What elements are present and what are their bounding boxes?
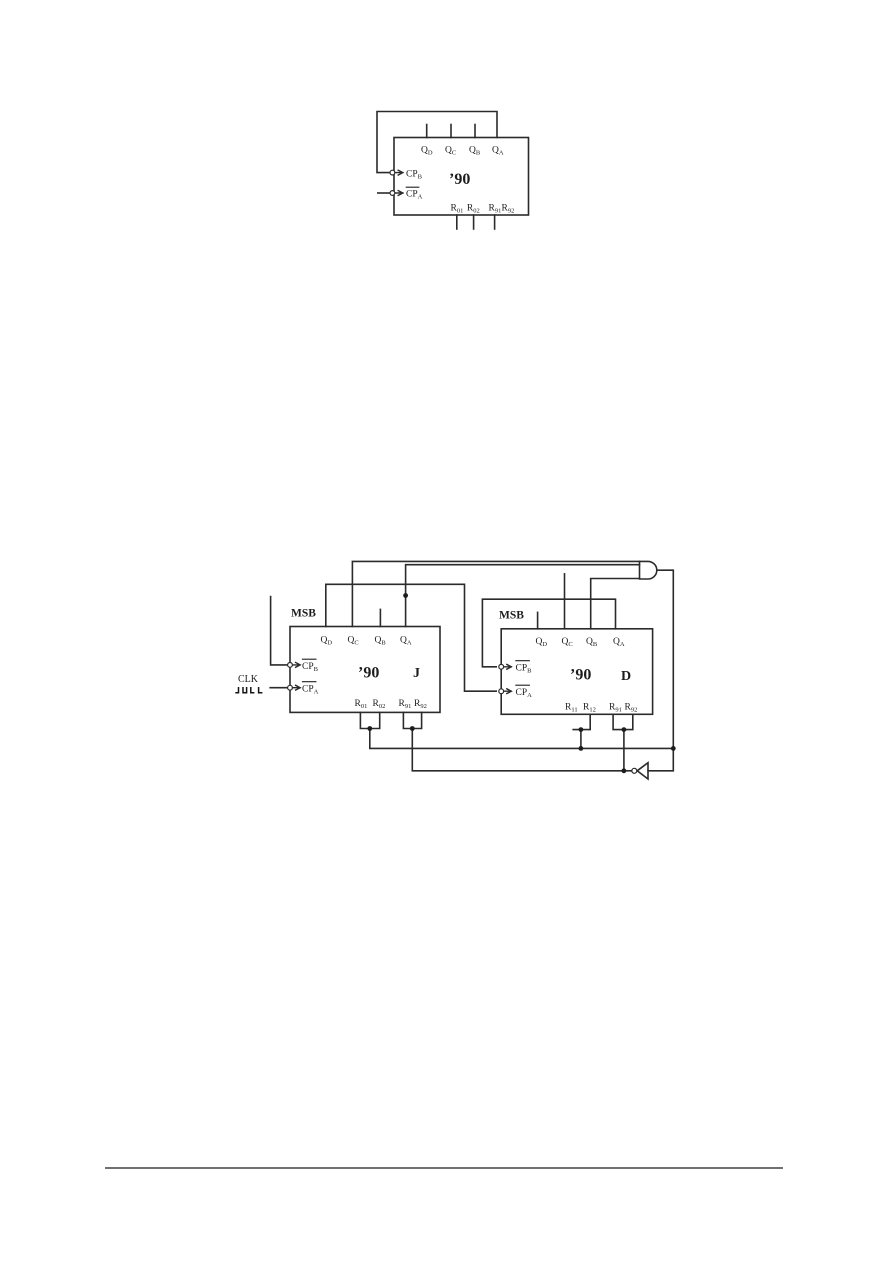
svg-text:R91: R91 [399,699,412,710]
pin R02 stub U1 [473,215,475,229]
IC U1 '90 counter box (top diagram) [394,138,529,216]
svg-text:J: J [413,666,420,681]
pin QD stub U3 [537,612,539,628]
clock arrowhead CPA U1 [395,191,403,196]
svg-text:QB: QB [469,146,481,157]
clock input bubble CPA U3 [499,689,504,694]
svg-text:QB: QB [375,636,387,647]
clock input bubble CPA U1 [390,191,395,196]
svg-text:’90: ’90 [358,665,379,682]
svg-text:’90: ’90 [449,171,470,188]
svg-text:R91: R91 [489,204,502,215]
svg-text:CPA: CPA [406,190,423,201]
wire gate output down to reset bus [648,570,673,771]
wire4 U3.QA to U3.CPB [482,599,615,667]
R91R92 tie U3 [613,714,633,729]
footer rule [105,1167,783,1169]
svg-text:CPB: CPB [516,664,533,675]
clock input bubble CPB U3 [499,664,504,669]
svg-text:QA: QA [492,146,504,157]
junction dot wire A / gate line [671,746,676,751]
svg-text:R12: R12 [583,703,596,714]
wire feedback QA to CPB (top diagram) [377,112,497,173]
wire CLK to CPA U2 [270,687,288,689]
svg-text:R11: R11 [565,703,578,714]
wire CPA input U1 [378,192,390,194]
svg-text:R02: R02 [467,204,480,215]
junction dot R0 tie U2 [367,726,372,731]
svg-text:CLK: CLK [238,674,259,685]
svg-text:R92: R92 [502,204,515,215]
junction dot on QA vertical (left chip) [403,593,408,598]
wire2 U2.QA to gate input [406,565,640,627]
junction dot R9 tie U3 [622,727,627,732]
pin QD stub U1 [426,125,428,138]
clock waveform glyph [235,687,262,693]
pin R01 stub U1 [456,215,458,229]
wire U3 R1 tie down to wire A [580,730,582,749]
svg-text:’90: ’90 [570,667,591,684]
wire B reset9 bus from U2 [412,729,631,771]
svg-text:QD: QD [536,637,548,648]
pin QB stub U1 [474,125,476,138]
svg-text:QD: QD [421,146,433,157]
wire1 U2.QC to gate input [352,561,639,626]
wire CPB input dangling vertical (left chip) [271,597,288,665]
svg-text:R02: R02 [373,699,386,710]
clock arrowhead CPA U3 [504,689,511,694]
svg-text:R91: R91 [609,703,622,714]
clock input bubble CPA U2 [288,685,293,690]
pin QC stub U1 [450,125,452,138]
svg-text:D: D [621,669,631,684]
inverter U4 bubble [632,768,637,773]
wire3 U2.QD to U3.CPA [326,584,496,691]
clock arrowhead CPA U2 [293,685,300,690]
wire A reset0 bus from U2 [370,729,674,749]
wire U3 R9 tie down to wire B [623,730,625,771]
svg-text:R01: R01 [451,204,464,215]
svg-text:CPB: CPB [302,662,319,673]
svg-text:QC: QC [562,637,573,648]
junction dot wire B / U3 R9 [622,768,627,773]
inverter U4 triangle [637,763,648,779]
svg-text:CPA: CPA [516,688,533,699]
clock input bubble CPB U2 [288,663,293,668]
IC U3 '90 D box (right chip) [501,629,652,715]
pin QB stub U2 [379,609,381,626]
pin R91 stub U1 [494,215,496,229]
svg-text:QC: QC [445,146,456,157]
clock input bubble CPB U1 [390,170,395,175]
svg-text:R01: R01 [355,699,368,710]
junction dot R1 tie U3 [579,727,584,732]
AND gate G1 [640,561,657,579]
svg-text:MSB: MSB [499,610,524,622]
wire U3.QC dangling vertical [564,574,566,629]
svg-text:MSB: MSB [291,608,316,620]
clock arrowhead CPB U1 [395,170,403,175]
svg-text:QA: QA [613,637,625,648]
wire U3.QB to gate input [591,579,640,629]
svg-text:CPA: CPA [302,685,319,696]
clock arrowhead CPB U2 [293,663,300,668]
junction dot wire A / U3 R1 [579,746,584,751]
junction dot R9 tie U2 [410,726,415,731]
svg-text:QA: QA [400,636,412,647]
svg-text:R92: R92 [414,699,427,710]
svg-text:R92: R92 [625,703,638,714]
IC U2 '90 J box (left chip) [290,627,440,713]
svg-text:QD: QD [321,636,333,647]
svg-text:CPB: CPB [406,170,423,181]
R01R02 tie U2 [360,712,379,728]
svg-text:QC: QC [348,636,359,647]
svg-text:QB: QB [586,637,598,648]
clock arrowhead CPB U3 [504,664,511,669]
R91R92 tie U2 [403,712,421,728]
R11R12 tie U3 [573,714,590,729]
